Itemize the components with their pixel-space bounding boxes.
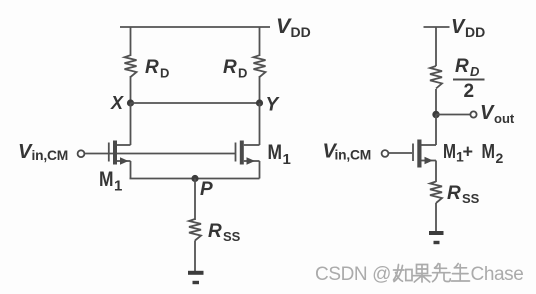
label RD right bbox=[223, 57, 247, 81]
wire RSS to ground bbox=[194, 241, 196, 272]
生 bbox=[452, 264, 470, 282]
svg-text:DD: DD bbox=[291, 24, 311, 40]
wire Y down to M1 right drain bbox=[259, 103, 261, 145]
wire RD/2 to output node bbox=[435, 89, 437, 115]
label RD/2 fraction bbox=[453, 56, 485, 102]
svg-text:in,CM: in,CM bbox=[32, 148, 69, 163]
resistor RD left bbox=[125, 55, 137, 77]
resistor RSS (left circuit) bbox=[189, 219, 201, 241]
wire RD right to node Y bbox=[259, 76, 261, 103]
svg-text:R: R bbox=[223, 57, 237, 78]
VDD rail (left circuit) bbox=[120, 26, 270, 28]
label M1 right bbox=[268, 141, 291, 168]
svg-text:+: + bbox=[463, 142, 474, 162]
resistor RD right bbox=[254, 55, 266, 77]
svg-text:V: V bbox=[451, 16, 466, 38]
gate wire (right circuit) bbox=[389, 152, 413, 154]
svg-text:1: 1 bbox=[283, 151, 291, 168]
VDD label (right circuit) bbox=[451, 16, 485, 40]
label Vout bbox=[480, 102, 515, 126]
gate wire Vin,CM to both gates bbox=[85, 153, 236, 155]
svg-text:D: D bbox=[160, 66, 169, 81]
svg-text:M: M bbox=[443, 141, 456, 163]
label M1+M2 bbox=[443, 141, 504, 166]
wire node down to M1+M2 drain bbox=[435, 115, 437, 146]
如 bbox=[394, 265, 405, 282]
VDD label (left circuit) bbox=[276, 14, 311, 40]
node P dot bbox=[191, 175, 198, 182]
wire VDD to RD/2 bbox=[435, 27, 437, 66]
svg-text:X: X bbox=[110, 93, 124, 113]
svg-text:2: 2 bbox=[464, 81, 475, 102]
input terminal Vin,CM (right) bbox=[382, 150, 389, 157]
transistor M1 left bbox=[109, 141, 131, 179]
wire rail to RD right bbox=[259, 27, 261, 56]
wire P to RSS bbox=[194, 179, 196, 221]
node X dot bbox=[127, 99, 134, 106]
resistor RD/2 bbox=[430, 66, 442, 89]
label M1 left bbox=[99, 168, 122, 195]
svg-text:V: V bbox=[480, 102, 495, 124]
svg-text:CSDN @: CSDN @ bbox=[315, 264, 391, 285]
label RSS (left circuit) bbox=[208, 221, 241, 244]
svg-text:P: P bbox=[200, 179, 213, 200]
wire X down to M1 left drain bbox=[130, 103, 132, 145]
svg-text:R: R bbox=[455, 56, 469, 77]
svg-text:R: R bbox=[145, 57, 159, 78]
svg-text:R: R bbox=[208, 221, 222, 242]
wire node to Vout terminal bbox=[436, 114, 471, 116]
output node dot bbox=[432, 111, 439, 118]
wire RSS to ground (right) bbox=[435, 203, 437, 231]
ground (right circuit) bbox=[429, 233, 444, 243]
resistor RSS (right circuit) bbox=[430, 182, 442, 204]
svg-text:D: D bbox=[470, 64, 480, 79]
transistor M1 right bbox=[236, 141, 260, 179]
input terminal Vin,CM (left) bbox=[78, 150, 85, 157]
果 bbox=[413, 265, 431, 283]
svg-text:SS: SS bbox=[462, 191, 480, 206]
wire RD left to node X bbox=[130, 76, 132, 103]
svg-text:M: M bbox=[482, 141, 496, 163]
svg-text:out: out bbox=[494, 111, 515, 126]
svg-text:SS: SS bbox=[223, 229, 241, 244]
label RD left bbox=[145, 57, 169, 81]
wire X to Y bbox=[131, 102, 260, 104]
svg-text:D: D bbox=[238, 66, 247, 81]
svg-text:1: 1 bbox=[114, 178, 122, 195]
svg-text:R: R bbox=[447, 183, 461, 204]
VDD tick (right circuit) bbox=[424, 26, 450, 28]
先 bbox=[433, 264, 451, 282]
svg-text:DD: DD bbox=[465, 24, 485, 40]
svg-text:M: M bbox=[99, 168, 114, 191]
ground (left circuit) bbox=[188, 273, 204, 283]
watermark CSDN @如果先生Chase bbox=[315, 264, 523, 286]
label Vin,CM (left) bbox=[18, 141, 68, 163]
wire rail to RD left bbox=[130, 27, 132, 56]
wire source line through node P bbox=[130, 178, 260, 180]
svg-text:2: 2 bbox=[496, 150, 504, 166]
svg-text:in,CM: in,CM bbox=[335, 148, 372, 163]
label Vin,CM (right) bbox=[323, 141, 372, 163]
label RSS (right circuit) bbox=[447, 183, 480, 206]
node Y dot bbox=[256, 99, 263, 106]
svg-text:M: M bbox=[268, 141, 283, 164]
transistor M1+M2 bbox=[413, 140, 436, 183]
terminal Vout bbox=[470, 111, 476, 117]
svg-text:Chase: Chase bbox=[471, 264, 524, 285]
